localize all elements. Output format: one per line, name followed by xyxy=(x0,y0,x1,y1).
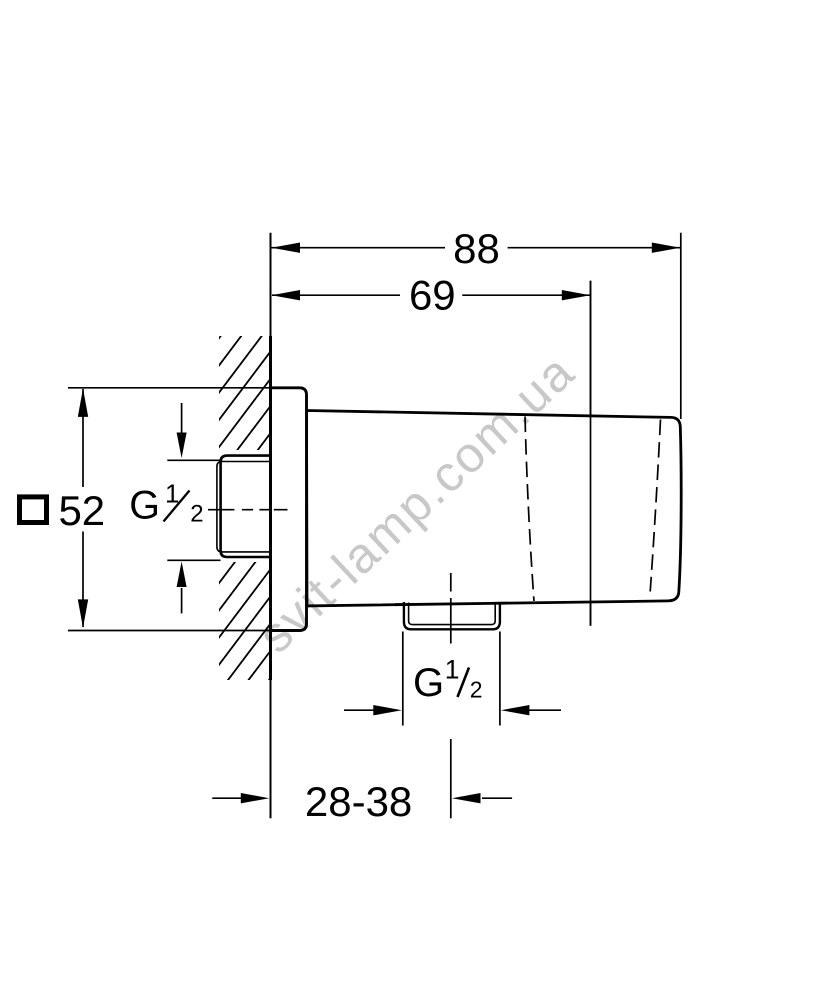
svg-text:1: 1 xyxy=(445,655,460,685)
svg-text:2: 2 xyxy=(470,677,483,703)
svg-text:2: 2 xyxy=(190,501,203,528)
svg-text:88: 88 xyxy=(453,225,500,272)
svg-text:28-38: 28-38 xyxy=(305,778,412,825)
svg-text:G: G xyxy=(129,484,160,528)
svg-text:G: G xyxy=(413,661,444,705)
svg-text:52: 52 xyxy=(58,487,105,534)
svg-text:69: 69 xyxy=(409,272,456,319)
